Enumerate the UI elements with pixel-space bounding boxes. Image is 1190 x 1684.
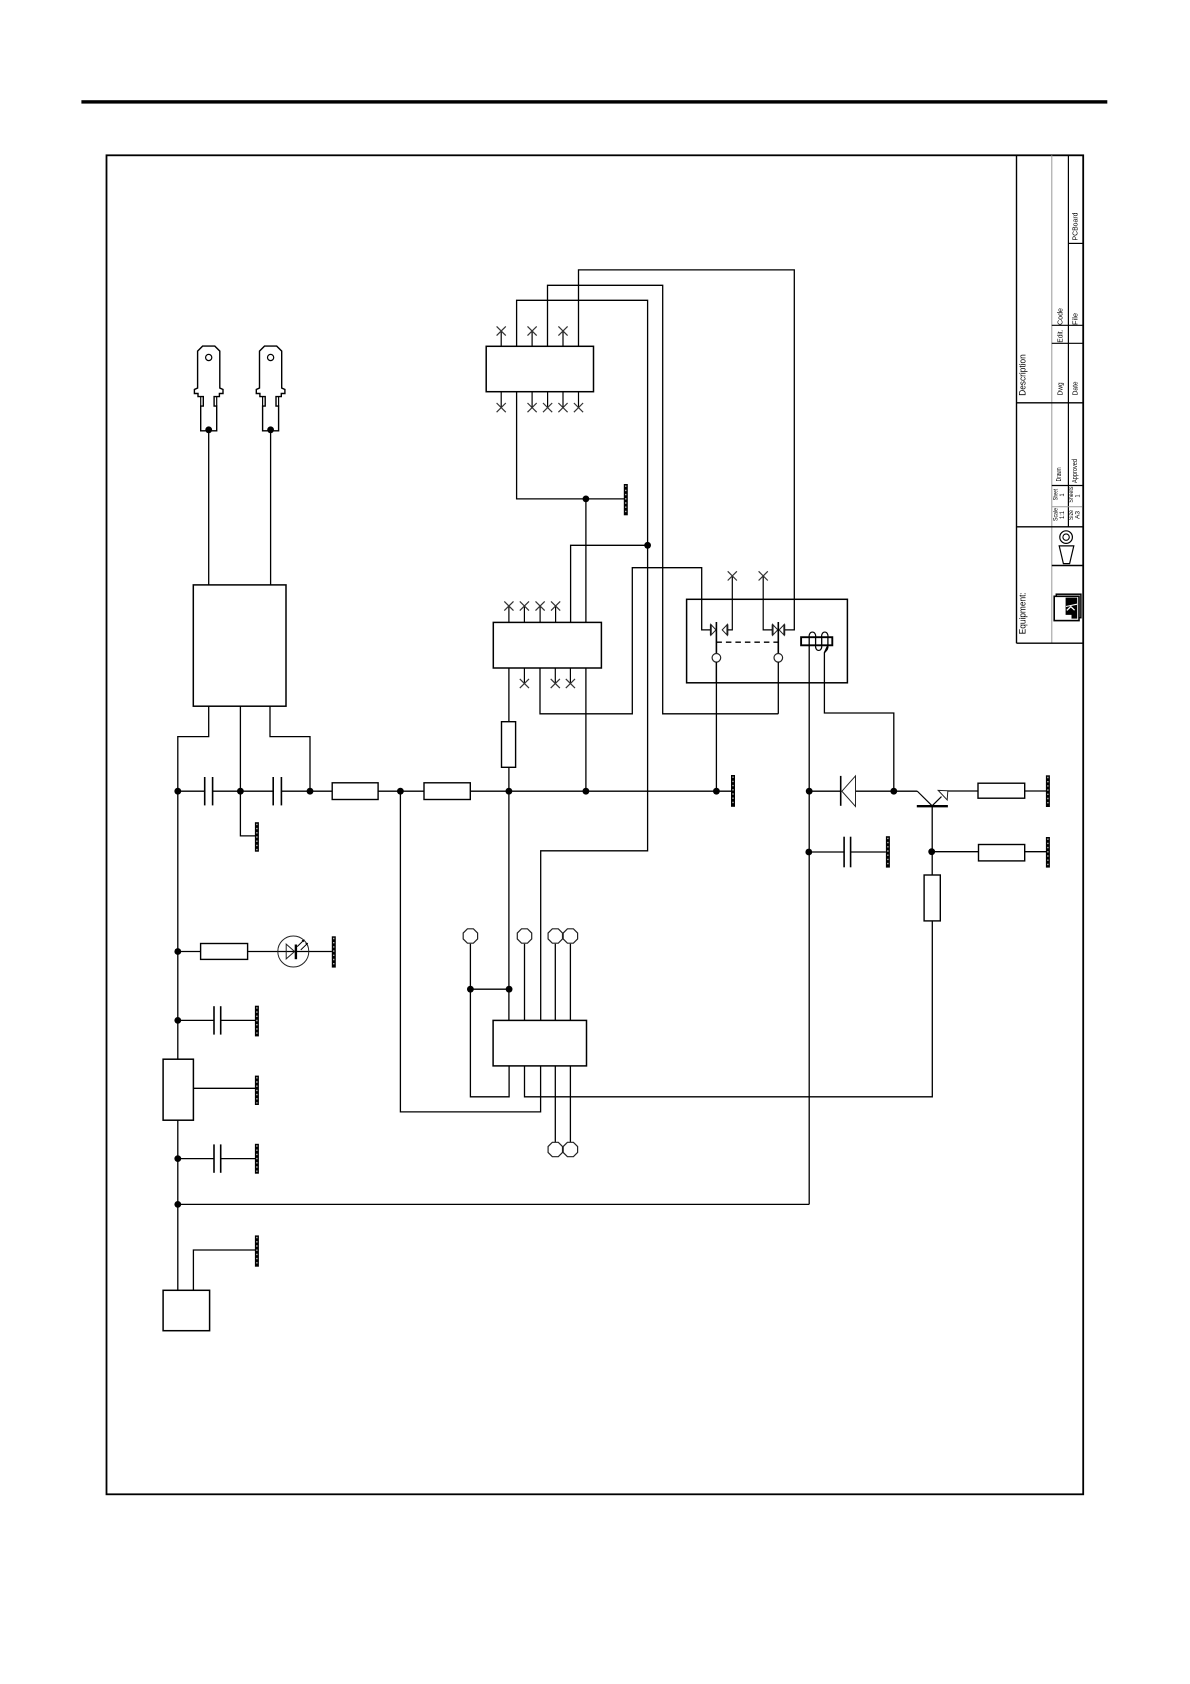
title block: [1016, 155, 1018, 643]
ground: [332, 936, 336, 967]
junction: [397, 788, 404, 795]
junction: [713, 788, 720, 795]
terminal P4: [563, 929, 577, 943]
wire: [948, 790, 978, 792]
wire: [569, 944, 571, 1142]
IC U3: [493, 1020, 586, 1066]
svg-text:Edit.: Edit.: [1058, 330, 1065, 343]
resistor R7: [924, 875, 940, 921]
resistor R1: [332, 783, 378, 800]
junction: [583, 788, 590, 795]
ground: [255, 1235, 259, 1266]
resistor R3: [201, 944, 248, 960]
resistor R5: [978, 783, 1025, 798]
svg-text:PCBoard: PCBoard: [1073, 212, 1080, 240]
svg-text:A3: A3: [1076, 510, 1082, 519]
wire: [178, 1019, 214, 1021]
transformer T1: [193, 585, 286, 706]
wire: [517, 392, 624, 499]
capacitor C2: [272, 777, 274, 805]
ground: [731, 775, 735, 807]
wire: [540, 568, 710, 714]
projection symbol: [1060, 531, 1073, 544]
junction: [174, 1017, 181, 1024]
ground: [886, 836, 890, 867]
transistor Q1: [917, 791, 932, 806]
wire: [178, 1158, 214, 1160]
resistor R6: [979, 845, 1025, 861]
connector terminal J2: [256, 346, 285, 431]
wire: [508, 767, 510, 1020]
connector terminal J1: [194, 346, 223, 431]
wire: [715, 662, 717, 791]
wire: [193, 1250, 255, 1290]
junction: [805, 849, 812, 856]
wire: [178, 790, 205, 792]
wire: [579, 270, 795, 630]
wire: [178, 951, 201, 953]
wire: [824, 645, 893, 791]
relay K1: [687, 599, 848, 683]
junction: [174, 948, 181, 955]
terminal P2: [517, 929, 531, 943]
ground: [255, 1076, 259, 1105]
wire: [571, 545, 648, 622]
ground: [1046, 837, 1050, 868]
wire: [378, 790, 424, 792]
svg-text:Sheets: Sheets: [1069, 487, 1075, 503]
wire: [470, 988, 509, 990]
junction: [307, 788, 314, 795]
wire: [221, 1158, 255, 1160]
svg-text:File: File: [1073, 313, 1080, 325]
IC U1: [486, 346, 593, 391]
svg-text:Date: Date: [1073, 381, 1080, 395]
junction: [174, 1155, 181, 1162]
wire: [585, 499, 587, 791]
capacitor C5: [843, 837, 845, 868]
wire: [248, 951, 332, 953]
junction: [506, 986, 513, 993]
svg-text:Description: Description: [1018, 354, 1028, 396]
junction: [583, 496, 590, 503]
title block logo: [1056, 594, 1081, 618]
capacitor C3: [213, 1006, 215, 1034]
junction: [644, 542, 651, 549]
wire: [856, 790, 894, 792]
wire: [208, 430, 210, 585]
wire: [470, 944, 509, 1097]
wire: [524, 944, 526, 1021]
wire: [470, 790, 731, 792]
junction: [928, 848, 935, 855]
svg-text:Sheet: Sheet: [1054, 489, 1060, 501]
ground: [255, 822, 259, 852]
ground: [255, 1006, 259, 1037]
capacitor C1: [204, 777, 206, 805]
wire: [213, 790, 274, 792]
wire: [1025, 851, 1046, 853]
svg-text:Approved: Approved: [1072, 459, 1079, 483]
component U5: [163, 1290, 210, 1330]
wire: [221, 1019, 255, 1021]
component U4: [163, 1059, 193, 1120]
wire: [548, 285, 779, 714]
wire: [525, 921, 933, 1097]
svg-text:Dwg: Dwg: [1058, 382, 1065, 395]
svg-text:Size: Size: [1069, 509, 1075, 520]
wire: [270, 430, 272, 585]
wire: [193, 1087, 255, 1089]
wire: [177, 791, 179, 1290]
junction: [237, 788, 244, 795]
IC U2: [493, 622, 601, 668]
wire: [508, 668, 510, 722]
wire: [554, 944, 556, 1142]
svg-text:Scale: Scale: [1054, 507, 1060, 521]
svg-text:1:1: 1:1: [1060, 510, 1066, 519]
wire: [931, 806, 933, 875]
ground: [255, 1144, 259, 1174]
wire: [270, 706, 310, 791]
resistor R4: [502, 722, 516, 768]
wire: [240, 706, 255, 836]
junction: [267, 426, 274, 433]
LED D1: [278, 936, 309, 967]
junction: [174, 788, 181, 795]
junction: [174, 1201, 181, 1208]
wire: [894, 790, 917, 792]
wire: [281, 790, 332, 792]
wire: [809, 851, 844, 853]
resistor R2: [424, 783, 470, 800]
junction: [506, 788, 513, 795]
junction: [806, 788, 813, 795]
svg-text:Code: Code: [1058, 308, 1065, 325]
wire: [400, 791, 540, 1112]
svg-text:Equipment:: Equipment:: [1018, 592, 1028, 634]
wire: [178, 706, 209, 791]
svg-text:Drawn: Drawn: [1056, 467, 1063, 481]
diode D2: [840, 776, 842, 806]
ground: [1046, 775, 1050, 807]
wire: [809, 790, 841, 792]
wire: [932, 851, 979, 853]
terminal P1: [463, 929, 477, 943]
wire: [178, 1203, 809, 1205]
terminal P3: [548, 929, 562, 943]
ground: [624, 484, 628, 515]
wire: [851, 851, 886, 853]
junction: [467, 986, 474, 993]
wire: [1025, 790, 1046, 792]
terminal P6: [563, 1142, 577, 1156]
wire: [517, 300, 648, 1020]
capacitor C4: [213, 1144, 215, 1172]
junction: [205, 426, 212, 433]
wire: [808, 645, 810, 1204]
junction: [890, 788, 897, 795]
terminal P5: [548, 1142, 562, 1156]
